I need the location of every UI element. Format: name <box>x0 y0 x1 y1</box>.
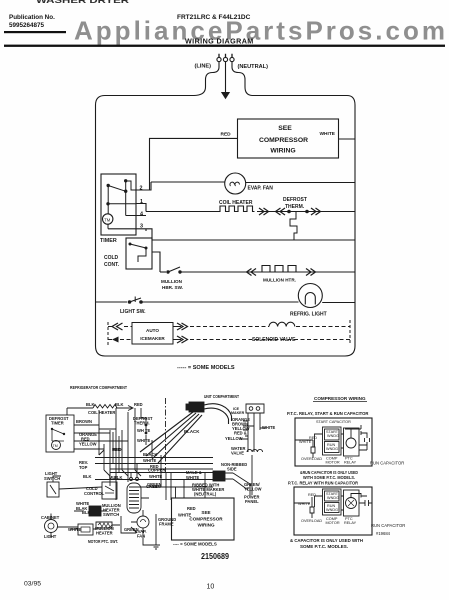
svg-text:WIRING DIAGRAM: WIRING DIAGRAM <box>185 36 254 45</box>
svg-text:COMPRESSOR: COMPRESSOR <box>189 517 223 522</box>
svg-text:WH TE: WH TE <box>137 428 150 433</box>
svg-text:PANEL: PANEL <box>245 499 259 504</box>
svg-text:(LINE): (LINE) <box>195 63 212 69</box>
svg-text:BLACK: BLACK <box>184 429 200 434</box>
svg-text:VALVE: VALVE <box>231 451 244 456</box>
svg-text:P.T.C. RELAY WITH RUN CAPACITO: P.T.C. RELAY WITH RUN CAPACITOR <box>288 481 358 486</box>
svg-text:WHITE: WHITE <box>68 527 81 532</box>
svg-text:----- = SOME MODELS: ----- = SOME MODELS <box>177 365 235 371</box>
svg-text:WIRING: WIRING <box>197 523 215 528</box>
svg-text:4: 4 <box>140 212 143 218</box>
svg-text:LIGHT SW.: LIGHT SW. <box>120 309 146 315</box>
svg-text:COLD: COLD <box>104 255 119 261</box>
svg-text:(NEUTRAL): (NEUTRAL) <box>238 64 269 70</box>
svg-text:MLK: MLK <box>109 475 118 480</box>
svg-text:TM: TM <box>53 444 58 448</box>
svg-text:MOTOR: MOTOR <box>326 521 340 525</box>
svg-text:YELLOW: YELLOW <box>225 436 243 441</box>
svg-text:#19684: #19684 <box>376 531 391 536</box>
svg-text:RELAY: RELAY <box>344 461 357 465</box>
svg-text:OVERLOAD: OVERLOAD <box>301 457 322 461</box>
svg-text:1: 1 <box>140 199 143 205</box>
svg-text:RED: RED <box>309 436 317 440</box>
svg-text:WHITE: WHITE <box>143 458 156 463</box>
svg-text:MULLION HTR.: MULLION HTR. <box>263 278 296 283</box>
svg-text:WHITE: WHITE <box>262 425 275 430</box>
svg-text:COMPRESSOR WIRING: COMPRESSOR WIRING <box>314 396 366 401</box>
svg-text:COMPRESSOR: COMPRESSOR <box>259 137 308 144</box>
svg-text:SEE: SEE <box>201 510 210 515</box>
svg-text:START CAPACITOR: START CAPACITOR <box>316 420 351 424</box>
svg-text:& CAPACITOR IS ONLY USED WITH: & CAPACITOR IS ONLY USED WITH <box>290 538 363 543</box>
svg-text:HEATER: HEATER <box>96 531 113 536</box>
svg-text:WHITE: WHITE <box>299 440 312 444</box>
svg-text:SEE: SEE <box>278 125 292 132</box>
svg-text:REFRIGERATOR COMPARTMENT: REFRIGERATOR COMPARTMENT <box>70 385 127 390</box>
svg-text:UNIT COMPARTMENT: UNIT COMPARTMENT <box>204 394 239 399</box>
svg-text:DEFROST: DEFROST <box>283 197 307 203</box>
svg-text:5995264875: 5995264875 <box>9 22 45 29</box>
svg-text:MOTOR PTC. SWT.: MOTOR PTC. SWT. <box>88 539 118 544</box>
svg-text:SIDE: SIDE <box>227 467 237 472</box>
svg-text:2: 2 <box>140 186 143 192</box>
svg-text:3: 3 <box>140 224 143 230</box>
svg-text:MOTOR: MOTOR <box>326 461 340 465</box>
svg-text:BLK: BLK <box>83 474 91 479</box>
svg-text:SOME P.T.C. MODLES.: SOME P.T.C. MODLES. <box>300 544 348 549</box>
svg-text:AppliancePartsPros.com: AppliancePartsPros.com <box>74 16 445 46</box>
svg-text:FAN: FAN <box>137 534 145 539</box>
svg-text:BLACK: BLACK <box>143 452 157 457</box>
svg-text:SWITCH: SWITCH <box>103 512 119 517</box>
svg-text:COIL HEATER: COIL HEATER <box>88 410 115 415</box>
svg-text:ICEMAKER: ICEMAKER <box>140 336 165 341</box>
svg-text:AUTO: AUTO <box>146 328 159 333</box>
svg-text:WNDG: WNDG <box>326 447 338 451</box>
svg-text:RUN CAPACITOR: RUN CAPACITOR <box>371 523 405 528</box>
svg-text:COPPER: COPPER <box>148 468 165 473</box>
svg-text:SWITCH: SWITCH <box>44 476 60 481</box>
svg-text:RED &: RED & <box>234 431 247 436</box>
svg-text:FRAME: FRAME <box>159 522 174 527</box>
svg-text:YELLOW: YELLOW <box>244 487 262 492</box>
svg-text:WITH SOME P.T.C. MODELS.: WITH SOME P.T.C. MODELS. <box>303 475 355 480</box>
svg-text:P.T.C. RELAY, START & RUN CAPA: P.T.C. RELAY, START & RUN CAPACITOR <box>287 411 368 416</box>
svg-text:RELAY: RELAY <box>344 521 357 525</box>
svg-text:BLK: BLK <box>82 510 90 515</box>
svg-text:GREEN: GREEN <box>147 482 162 487</box>
svg-text:WNDG: WNDG <box>327 434 339 438</box>
svg-text:HBR. SW.: HBR. SW. <box>162 285 183 290</box>
svg-text:THERM.: THERM. <box>285 204 305 210</box>
svg-text:2150689: 2150689 <box>201 552 229 561</box>
svg-text:BROWN: BROWN <box>76 419 92 424</box>
svg-text:CONT.: CONT. <box>104 262 120 268</box>
svg-text:SOLENOID VALVE: SOLENOID VALVE <box>252 337 296 343</box>
svg-text:MULLION: MULLION <box>161 279 183 284</box>
svg-text:10: 10 <box>207 584 215 591</box>
svg-text:RUN CAPACITOR: RUN CAPACITOR <box>370 461 404 466</box>
svg-text:EVAP. FAN: EVAP. FAN <box>248 186 274 192</box>
svg-text:WHITE: WHITE <box>186 475 199 480</box>
svg-text:WIRING: WIRING <box>270 148 295 155</box>
svg-text:TM: TM <box>104 217 111 222</box>
svg-text:OVERLOAD: OVERLOAD <box>301 519 322 523</box>
svg-text:BLK: BLK <box>115 402 123 407</box>
svg-text:WNDG: WNDG <box>326 508 338 512</box>
svg-text:YELLOW: YELLOW <box>79 442 97 447</box>
svg-text:REFRIG. LIGHT: REFRIG. LIGHT <box>290 312 327 318</box>
svg-text:THERM.: THERM. <box>134 421 150 426</box>
svg-text:LIGHT: LIGHT <box>44 534 57 539</box>
svg-text:TIMER: TIMER <box>100 238 117 244</box>
svg-text:RED: RED <box>221 132 232 138</box>
svg-text:WNDG: WNDG <box>327 496 339 500</box>
svg-text:WHITE: WHITE <box>320 131 336 137</box>
svg-text:RED: RED <box>134 402 143 407</box>
svg-text:WHITE: WHITE <box>137 438 150 443</box>
svg-text:---- = SOME MODELS: ---- = SOME MODELS <box>173 542 217 547</box>
svg-text:(NEUTRAL): (NEUTRAL) <box>194 492 217 497</box>
svg-text:RED: RED <box>187 506 196 511</box>
svg-text:TOP: TOP <box>79 465 88 470</box>
svg-text:RED: RED <box>112 447 121 452</box>
svg-text:Publication No.: Publication No. <box>9 14 55 21</box>
svg-text:WHITE: WHITE <box>149 474 162 479</box>
svg-text:MAKER: MAKER <box>231 411 245 415</box>
svg-text:COIL HEATER: COIL HEATER <box>219 200 253 206</box>
svg-text:BLK: BLK <box>86 402 94 407</box>
svg-text:CONTROL: CONTROL <box>84 491 105 496</box>
svg-text:WASHER DRYER: WASHER DRYER <box>36 0 129 5</box>
svg-text:CABINET: CABINET <box>41 515 60 520</box>
svg-text:WHITE: WHITE <box>298 502 311 506</box>
svg-text:03/95: 03/95 <box>24 581 41 588</box>
svg-text:TIMER: TIMER <box>51 421 64 426</box>
svg-text:RED: RED <box>308 493 316 497</box>
